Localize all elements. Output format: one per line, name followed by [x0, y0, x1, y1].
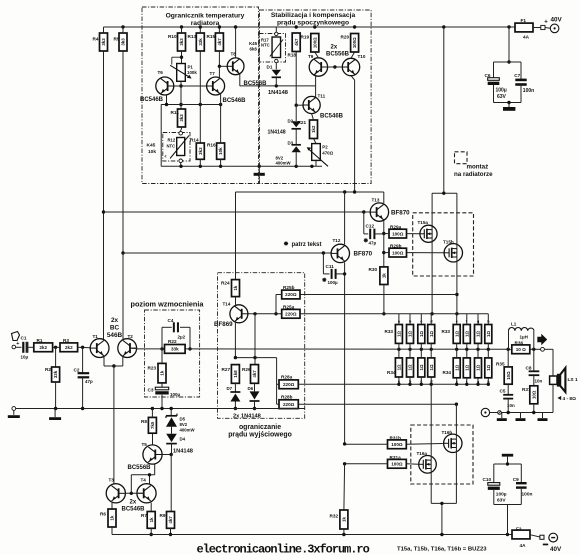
svg-text:1Ω: 1Ω	[429, 330, 434, 336]
svg-text:100Ω: 100Ω	[392, 231, 404, 236]
svg-text:100k: 100k	[187, 70, 197, 75]
svg-text:3k3: 3k3	[121, 38, 126, 46]
svg-text:1Ω: 1Ω	[397, 364, 402, 370]
svg-text:C4: C4	[168, 318, 174, 323]
svg-text:7k5: 7k5	[150, 421, 155, 429]
svg-text:T10: T10	[358, 54, 366, 59]
svg-text:R20: R20	[341, 35, 350, 40]
svg-text:R1: R1	[37, 338, 43, 343]
svg-text:4A: 4A	[523, 34, 530, 39]
svg-text:D4: D4	[180, 437, 186, 442]
svg-text:3k3: 3k3	[179, 38, 184, 46]
svg-text:R11: R11	[171, 110, 180, 115]
svg-text:100n: 100n	[522, 492, 533, 498]
svg-text:220Ω: 220Ω	[285, 292, 297, 297]
svg-text:BC546B: BC546B	[140, 97, 164, 103]
svg-text:C11: C11	[326, 264, 335, 269]
svg-text:+: +	[544, 20, 548, 26]
svg-text:8V2: 8V2	[180, 422, 188, 427]
svg-text:poziom wzmocnienia: poziom wzmocnienia	[131, 300, 205, 309]
svg-text:C12: C12	[366, 224, 375, 229]
svg-text:R35: R35	[496, 362, 505, 367]
svg-text:10 Ω: 10 Ω	[516, 347, 526, 352]
svg-text:C1: C1	[21, 336, 27, 341]
svg-text:R25b: R25b	[283, 285, 295, 290]
svg-text:prądu spoczynkowego: prądu spoczynkowego	[277, 20, 349, 27]
svg-text:2k2: 2k2	[65, 345, 73, 350]
svg-text:R16: R16	[207, 143, 216, 148]
svg-text:1Ω: 1Ω	[408, 330, 413, 336]
svg-text:10n: 10n	[535, 379, 543, 384]
svg-text:T16a: T16a	[417, 451, 428, 456]
svg-text:D7: D7	[227, 386, 233, 391]
svg-text:40V: 40V	[550, 546, 562, 553]
svg-text:R29a: R29a	[390, 225, 402, 230]
svg-text:P1: P1	[188, 65, 194, 70]
svg-text:4k7: 4k7	[252, 370, 257, 378]
svg-text:100n: 100n	[523, 88, 534, 94]
svg-text:R7: R7	[141, 513, 147, 518]
svg-text:T14: T14	[223, 302, 231, 307]
svg-text:47p: 47p	[85, 379, 93, 384]
svg-text:T15a, T15b, T16a, T16b = BUZ23: T15a, T15b, T16a, T16b = BUZ23	[397, 547, 487, 553]
svg-text:6k8: 6k8	[250, 47, 258, 52]
svg-text:R33: R33	[385, 329, 394, 334]
svg-text:BC546B: BC546B	[122, 507, 146, 513]
svg-text:10k: 10k	[218, 147, 223, 155]
svg-text:100Ω: 100Ω	[391, 462, 403, 467]
svg-text:400mW: 400mW	[276, 161, 292, 166]
svg-text:100Ω: 100Ω	[392, 250, 404, 255]
svg-text:100µ: 100µ	[170, 392, 181, 397]
svg-text:1N4148: 1N4148	[173, 449, 193, 455]
svg-text:63V: 63V	[497, 94, 507, 100]
svg-text:T13: T13	[372, 198, 380, 203]
svg-text:R6: R6	[100, 512, 106, 517]
svg-text:electronicaonline.3xforum.ro: electronicaonline.3xforum.ro	[197, 543, 370, 555]
svg-text:R3: R3	[63, 338, 69, 343]
svg-text:+: +	[16, 341, 19, 347]
svg-text:T4: T4	[141, 478, 147, 483]
svg-text:NTC: NTC	[261, 43, 270, 48]
svg-text:BF870: BF870	[391, 210, 410, 217]
svg-text:33k: 33k	[53, 370, 58, 378]
svg-text:D5: D5	[180, 417, 186, 422]
svg-text:R21: R21	[298, 120, 307, 125]
svg-text:1Ω: 1Ω	[397, 330, 402, 336]
svg-text:2k2: 2k2	[39, 345, 47, 350]
svg-text:1Ω: 1Ω	[408, 364, 413, 370]
svg-text:1Ω: 1Ω	[419, 364, 424, 370]
svg-text:T9: T9	[308, 54, 314, 59]
svg-text:470Ω: 470Ω	[322, 150, 333, 155]
svg-text:1Ω: 1Ω	[464, 364, 469, 370]
svg-text:1Ω: 1Ω	[486, 364, 491, 370]
svg-text:R8: R8	[141, 419, 147, 424]
svg-text:2x: 2x	[331, 45, 338, 51]
svg-text:F1: F1	[521, 18, 527, 23]
svg-text:D6: D6	[248, 386, 254, 391]
svg-text:100µ: 100µ	[328, 280, 339, 285]
svg-text:100Ω: 100Ω	[391, 442, 403, 447]
svg-text:K45: K45	[147, 143, 156, 149]
svg-text:BC546B: BC546B	[223, 98, 247, 104]
svg-text:1Ω: 1Ω	[476, 330, 481, 336]
svg-text:R15: R15	[207, 34, 216, 39]
svg-text:3k3: 3k3	[179, 114, 184, 122]
svg-text:F2: F2	[516, 527, 522, 532]
svg-text:BC: BC	[110, 325, 120, 332]
svg-text:R33: R33	[442, 329, 451, 334]
svg-text:na radiatorze: na radiatorze	[454, 171, 493, 178]
svg-text:R22: R22	[168, 339, 177, 344]
svg-text:100µ: 100µ	[496, 492, 507, 498]
svg-text:R31a: R31a	[390, 455, 402, 460]
svg-text:2x: 2x	[111, 317, 119, 324]
svg-text:LS 1: LS 1	[568, 377, 578, 383]
svg-text:3k3: 3k3	[198, 147, 203, 155]
svg-text:33k: 33k	[171, 347, 179, 352]
svg-text:100Ω: 100Ω	[312, 37, 317, 48]
svg-text:1Ω: 1Ω	[486, 330, 491, 336]
svg-text:1N4148: 1N4148	[268, 90, 288, 96]
svg-text:100µ: 100µ	[496, 88, 507, 94]
svg-text:R29b: R29b	[390, 244, 402, 249]
svg-text:NTC: NTC	[167, 144, 176, 149]
svg-text:1N4148: 1N4148	[268, 130, 286, 136]
svg-text:R28a: R28a	[281, 375, 293, 380]
svg-text:radiatora: radiatora	[191, 20, 220, 27]
svg-text:1k: 1k	[149, 517, 154, 522]
svg-text:R32: R32	[330, 514, 339, 519]
svg-text:L1: L1	[511, 322, 517, 327]
svg-text:montaż: montaż	[467, 164, 489, 171]
svg-text:R27: R27	[222, 367, 231, 372]
svg-text:Stabilizacja i kompensacja: Stabilizacja i kompensacja	[271, 12, 356, 19]
svg-text:T15b: T15b	[443, 240, 454, 245]
svg-text:1Ω: 1Ω	[454, 364, 459, 370]
svg-text:33k: 33k	[198, 38, 203, 46]
svg-text:BF869: BF869	[214, 321, 233, 328]
svg-text:C2: C2	[74, 368, 80, 373]
svg-text:BC556B: BC556B	[128, 465, 152, 471]
svg-text:4k7: 4k7	[294, 38, 299, 46]
svg-text:400mW: 400mW	[180, 427, 196, 432]
svg-text:R9: R9	[160, 513, 166, 518]
svg-text:3k3: 3k3	[101, 38, 106, 46]
svg-text:D2: D2	[288, 119, 294, 124]
svg-text:T7: T7	[210, 71, 216, 76]
svg-text:R36: R36	[515, 341, 524, 346]
svg-text:R26: R26	[242, 367, 251, 372]
svg-text:C3: C3	[148, 388, 154, 393]
svg-text:BC556B: BC556B	[326, 52, 350, 58]
svg-text:R18: R18	[288, 53, 297, 58]
svg-text:T2: T2	[128, 334, 134, 339]
svg-text:220Ω: 220Ω	[283, 402, 295, 407]
svg-text:1µH: 1µH	[520, 335, 528, 340]
svg-text:10µ: 10µ	[21, 355, 29, 360]
svg-text:1k: 1k	[382, 273, 387, 278]
svg-text:4A: 4A	[520, 543, 527, 548]
svg-text:T6: T6	[158, 70, 164, 75]
svg-text:10Ω: 10Ω	[506, 371, 511, 380]
svg-text:1k: 1k	[160, 370, 165, 375]
svg-text:R10: R10	[168, 34, 177, 39]
svg-text:1k8: 1k8	[233, 370, 238, 378]
svg-text:1k: 1k	[110, 515, 115, 520]
svg-text:prądu wyjściowego: prądu wyjściowego	[228, 431, 292, 438]
svg-text:1k2: 1k2	[311, 125, 316, 133]
svg-text:10k: 10k	[148, 149, 156, 155]
svg-text:R14: R14	[190, 138, 199, 143]
svg-text:220Ω: 220Ω	[285, 312, 297, 317]
svg-text:220Ω: 220Ω	[283, 382, 295, 387]
svg-text:1k: 1k	[233, 285, 238, 290]
svg-text:D3: D3	[288, 141, 294, 146]
svg-text:R34: R34	[387, 370, 396, 375]
svg-text:R12: R12	[168, 138, 176, 143]
svg-text:ograniczanie: ograniczanie	[239, 424, 281, 431]
svg-text:2µ2: 2µ2	[178, 335, 186, 340]
svg-text:C9: C9	[513, 477, 519, 482]
svg-text:1k: 1k	[342, 517, 347, 522]
svg-text:D1: D1	[267, 65, 273, 70]
svg-text:T12: T12	[333, 238, 341, 243]
svg-text:R4: R4	[93, 37, 99, 42]
svg-text:R37: R37	[522, 387, 531, 392]
svg-text:63V: 63V	[497, 498, 506, 504]
svg-text:R19: R19	[301, 35, 310, 40]
svg-text:Ogranicznik temperatury: Ogranicznik temperatury	[166, 13, 245, 20]
svg-text:1Ω: 1Ω	[464, 330, 469, 336]
svg-text:T16b: T16b	[442, 430, 453, 435]
svg-text:patrz tekst: patrz tekst	[292, 242, 322, 248]
svg-text:1Ω: 1Ω	[429, 364, 434, 370]
svg-text:R5: R5	[114, 37, 120, 42]
svg-text:1Ω: 1Ω	[476, 364, 481, 370]
svg-text:C7: C7	[514, 73, 520, 78]
svg-text:C5: C5	[500, 389, 506, 394]
svg-text:R13: R13	[188, 34, 197, 39]
svg-text:T11: T11	[318, 94, 326, 99]
svg-text:47p: 47p	[369, 241, 377, 246]
svg-text:100Ω: 100Ω	[352, 37, 357, 48]
svg-text:C10: C10	[483, 477, 492, 482]
svg-text:1Ω: 1Ω	[419, 330, 424, 336]
svg-text:R30: R30	[369, 267, 378, 272]
svg-text:BF870: BF870	[354, 251, 373, 258]
svg-text:40V: 40V	[551, 17, 563, 24]
svg-text:C8: C8	[526, 366, 532, 371]
svg-text:BC546B: BC546B	[320, 114, 344, 120]
svg-text:P2: P2	[322, 144, 328, 149]
svg-text:4 - 8Ω: 4 - 8Ω	[563, 396, 577, 402]
svg-text:10Ω: 10Ω	[531, 390, 536, 399]
svg-text:4k7: 4k7	[217, 38, 222, 46]
svg-text:4k7: 4k7	[168, 516, 173, 524]
svg-text:R28b: R28b	[281, 395, 293, 400]
svg-text:T5: T5	[142, 442, 148, 447]
svg-text:R24: R24	[221, 281, 230, 286]
svg-text:R2: R2	[45, 367, 51, 372]
svg-text:R23: R23	[148, 366, 157, 371]
svg-text:K45: K45	[249, 41, 258, 46]
svg-text:1Ω: 1Ω	[454, 330, 459, 336]
svg-text:T3: T3	[109, 478, 115, 483]
svg-text:R31b: R31b	[390, 435, 402, 440]
svg-text:T1: T1	[93, 334, 99, 339]
svg-text:R25a: R25a	[283, 304, 295, 309]
svg-text:T15a: T15a	[418, 220, 429, 225]
svg-text:546B: 546B	[107, 332, 123, 339]
svg-text:2x: 2x	[130, 500, 137, 506]
svg-text:R34: R34	[443, 370, 452, 375]
